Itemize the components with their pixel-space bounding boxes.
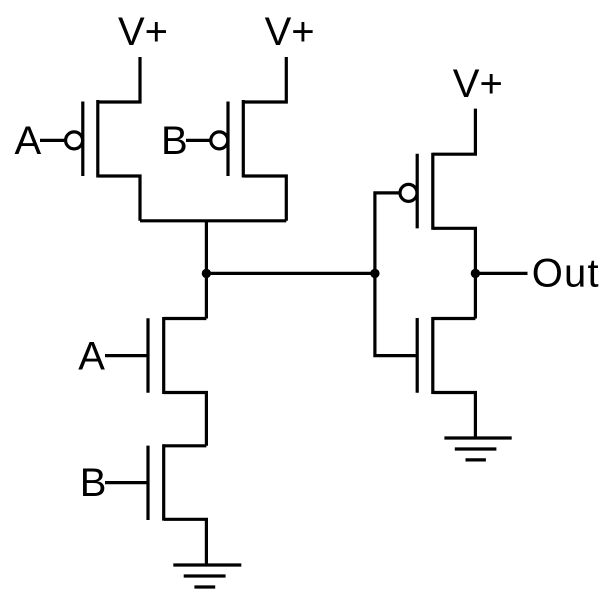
svg-text:V+: V+ [453,62,503,106]
svg-text:Out: Out [532,252,600,296]
svg-text:B: B [161,119,188,163]
svg-text:B: B [80,461,107,505]
svg-text:A: A [78,335,105,379]
svg-text:A: A [15,119,42,163]
svg-text:V+: V+ [118,10,168,54]
svg-text:V+: V+ [265,10,315,54]
